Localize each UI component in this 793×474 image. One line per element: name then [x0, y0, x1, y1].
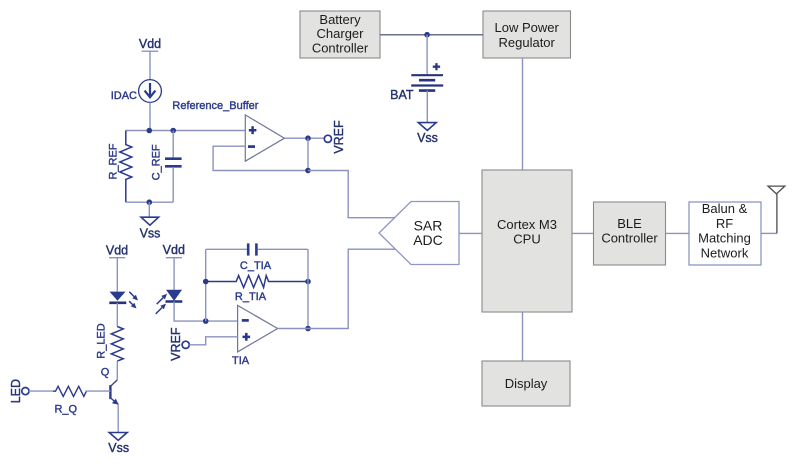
svg-text:Balun &: Balun & [702, 201, 748, 216]
svg-text:VREF: VREF [332, 120, 346, 154]
node bottom rail [147, 199, 153, 205]
block Cortex M3 CPU [482, 170, 572, 312]
block BLE Controller [594, 202, 666, 265]
svg-text:BLE: BLE [617, 216, 642, 231]
wire node to ground [148, 202, 150, 217]
wire VREF to plus input [189, 337, 237, 345]
wire TIA output to SAR ADC [278, 249, 396, 328]
block Low Power Regulator [483, 11, 571, 58]
wire bottom rail [126, 201, 173, 203]
svg-text:C_TIA: C_TIA [240, 260, 272, 272]
transistor Q [101, 367, 119, 405]
wire Vdd to photodiode [173, 258, 175, 290]
svg-text:Vdd: Vdd [163, 243, 185, 257]
wire Vdd to LED [116, 258, 118, 292]
wire top rail R_REF C_REF [126, 130, 246, 132]
svg-text:Controller: Controller [601, 231, 658, 246]
wire SAR ADC to cortex [459, 232, 482, 234]
capacitor C_REF [151, 131, 182, 203]
svg-text:Vdd: Vdd [106, 244, 128, 258]
svg-text:Display: Display [505, 376, 548, 391]
current source IDAC [111, 80, 162, 103]
wire balun to antenna [761, 232, 777, 234]
node TIA output [305, 326, 311, 332]
wire vref node to SAR ADC [308, 171, 395, 218]
power rail Vdd LED [106, 244, 128, 258]
node R_TIA right [305, 279, 311, 285]
block Balun RF Matching Network [689, 201, 761, 265]
svg-text:R_TIA: R_TIA [235, 291, 267, 303]
resistor R_TIA [206, 276, 308, 304]
svg-text:Reference_Buffer: Reference_Buffer [172, 100, 258, 112]
svg-text:Vdd: Vdd [139, 37, 161, 51]
wire cortex to display [522, 312, 524, 361]
svg-text:Network: Network [701, 245, 749, 260]
svg-text:Matching: Matching [698, 231, 751, 246]
wire Vdd to current source [149, 51, 151, 79]
svg-text:C_REF: C_REF [151, 144, 163, 180]
svg-text:TIA: TIA [232, 355, 250, 367]
svg-text:VREF: VREF [169, 327, 183, 361]
power rail Vdd IDAC [139, 37, 161, 51]
wire R_LED to collector [116, 361, 118, 380]
block Display [482, 361, 570, 406]
terminal VREF TIA [169, 327, 189, 361]
svg-text:R_LED: R_LED [95, 323, 107, 359]
node R_REF top [147, 128, 153, 134]
wire LED to R_LED [116, 303, 118, 327]
svg-text:Charger: Charger [317, 26, 365, 41]
svg-text:Regulator: Regulator [499, 35, 556, 50]
wire feedback to minus input [213, 146, 308, 170]
wire battery charger to regulator [380, 34, 483, 36]
wire output node down [307, 138, 309, 170]
ground Vss battery [417, 123, 438, 145]
resistor R_REF [108, 131, 132, 203]
svg-text:RF: RF [716, 216, 733, 231]
power rail Vdd photodiode [163, 243, 185, 258]
svg-text:Q: Q [101, 367, 110, 379]
wire feedback right vertical [307, 249, 309, 328]
node output VREF [305, 135, 311, 141]
wire emitter to ground [117, 404, 119, 432]
svg-text:R_REF: R_REF [108, 143, 120, 179]
wire BLE to balun [666, 232, 690, 234]
terminal LED input [9, 379, 29, 403]
block SAR ADC [379, 202, 459, 265]
antenna [768, 186, 785, 233]
svg-text:Cortex M3: Cortex M3 [497, 217, 557, 232]
terminal VREF [324, 120, 346, 154]
svg-text:Low Power: Low Power [495, 20, 560, 35]
svg-text:R_Q: R_Q [54, 403, 77, 415]
photodiode D2 [156, 290, 183, 314]
block Battery Charger Controller [300, 11, 380, 58]
op-amp Reference_Buffer [172, 100, 284, 161]
battery BAT [390, 63, 443, 102]
capacitor C_TIA [206, 243, 308, 271]
resistor R_LED [95, 323, 123, 361]
svg-text:Controller: Controller [312, 41, 369, 56]
svg-text:BAT: BAT [390, 88, 414, 102]
wire op-amp output [284, 137, 324, 139]
node TIA minus [203, 318, 209, 324]
svg-text:IDAC: IDAC [111, 90, 137, 102]
svg-text:Battery: Battery [319, 12, 361, 27]
op-amp TIA [232, 305, 278, 367]
svg-text:CPU: CPU [513, 232, 540, 247]
node C_REF top [170, 128, 176, 134]
wire current source to node [149, 102, 151, 130]
wire LED terminal to R_Q [29, 390, 53, 392]
node feedback [305, 168, 311, 174]
svg-text:Vss: Vss [417, 131, 438, 145]
LED D1 [109, 292, 138, 309]
wire battery stem bottom [426, 91, 428, 123]
wire R_Q to base [85, 390, 110, 392]
svg-text:LED: LED [9, 379, 23, 403]
wire regulator to cortex [522, 58, 524, 170]
svg-text:ADC: ADC [413, 232, 443, 248]
wire battery stem top [426, 35, 428, 74]
ground Vss R_REF [140, 217, 161, 240]
resistor R_Q [53, 386, 86, 415]
node R_TIA left [203, 279, 209, 285]
node battery tap [424, 32, 430, 38]
wire feedback left vertical [205, 249, 207, 321]
ground Vss Q [108, 433, 129, 455]
wire cortex to BLE [572, 232, 594, 234]
wire photodiode to minus node [174, 301, 238, 321]
svg-text:Vss: Vss [108, 441, 129, 455]
svg-text:Vss: Vss [140, 227, 161, 241]
